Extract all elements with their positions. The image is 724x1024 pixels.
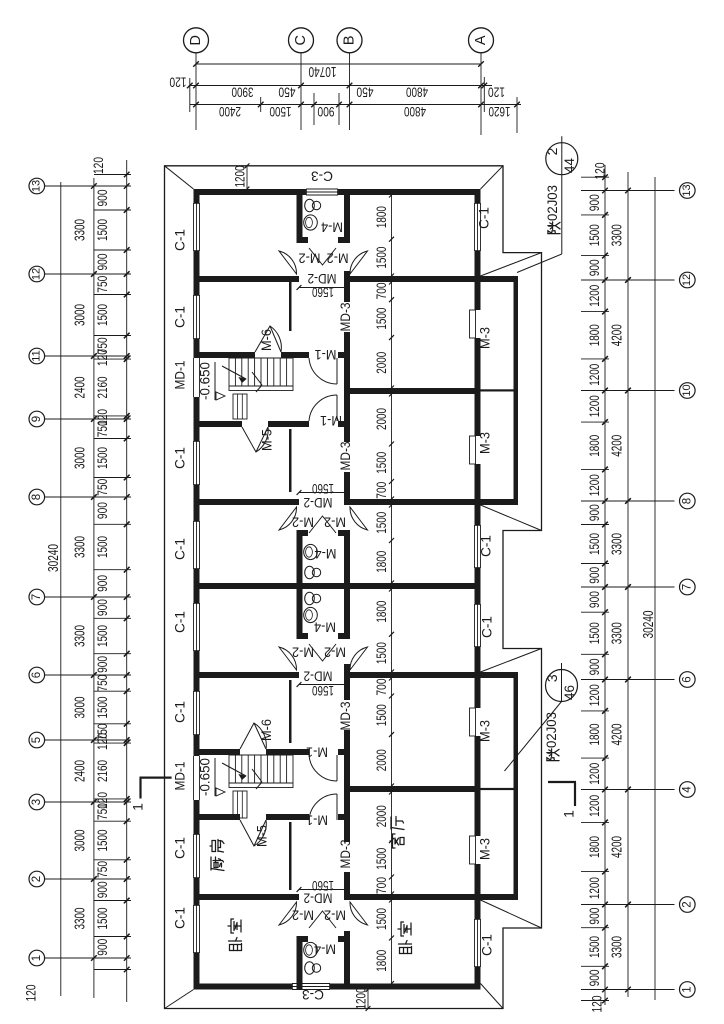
svg-text:M-6: M-6 — [259, 719, 274, 741]
svg-text:1560: 1560 — [312, 683, 334, 698]
balcony 2 divider wall at axis 4 — [481, 788, 514, 790]
svg-text:M-2: M-2 — [292, 907, 314, 922]
svg-text:3000: 3000 — [72, 697, 88, 719]
svg-text:12: 12 — [681, 274, 693, 286]
axis circle 10 right — [680, 383, 696, 399]
staircase 1 (axes 11-9) — [228, 358, 230, 386]
bottom gable wall (axis 1) with window C-3 gap — [194, 984, 293, 990]
svg-text:1800: 1800 — [373, 950, 389, 972]
axis C bath side walls — [297, 189, 303, 243]
svg-text:MD-2: MD-2 — [308, 271, 337, 286]
svg-text:450: 450 — [356, 84, 373, 100]
svg-text:900: 900 — [95, 190, 110, 207]
window C-3 bottom gable — [292, 983, 330, 985]
svg-text:M-4: M-4 — [314, 941, 336, 956]
svg-text:C-1: C-1 — [480, 934, 495, 956]
axis circle 1 left — [29, 950, 45, 966]
svg-text:13: 13 — [681, 184, 693, 196]
svg-text:M-5: M-5 — [255, 825, 270, 847]
axis circle D — [184, 28, 209, 53]
svg-text:1200: 1200 — [587, 877, 602, 899]
svg-text:120: 120 — [169, 74, 186, 90]
axis circle 1 right — [680, 982, 696, 998]
svg-text:M-2: M-2 — [327, 250, 349, 265]
svg-text:5: 5 — [31, 737, 43, 743]
svg-text:-0.650: -0.650 — [198, 758, 213, 796]
svg-text:MD-2: MD-2 — [304, 668, 333, 683]
detail callout circle 3/46 — [546, 670, 578, 702]
svg-text:900: 900 — [95, 599, 110, 616]
bathroom 1 fixtures (toilet and basin) — [305, 199, 315, 211]
axis circle 12 left — [29, 266, 45, 282]
window C-1 left bay 13-12 — [193, 203, 195, 251]
svg-text:1500: 1500 — [587, 936, 602, 958]
svg-text:750: 750 — [95, 803, 110, 820]
svg-text:M-3: M-3 — [478, 838, 493, 860]
axis 12 wall with MD-2 opening and balcony side wall — [200, 276, 300, 282]
axis circle 9 left — [29, 411, 45, 427]
svg-text:900: 900 — [587, 259, 602, 276]
svg-text:1: 1 — [31, 955, 43, 961]
top strip extension lines — [189, 78, 191, 112]
svg-text:1500: 1500 — [373, 642, 389, 664]
bathroom 2a upper wall with M-4 opening — [297, 530, 309, 536]
svg-text:3300: 3300 — [72, 219, 88, 241]
internal dimension chain line — [391, 195, 393, 984]
svg-text:900: 900 — [95, 575, 110, 592]
axis circle 6 left — [29, 667, 45, 683]
svg-text:1500: 1500 — [373, 452, 389, 474]
door M-1 lower at stair 2 — [336, 794, 338, 820]
svg-text:2: 2 — [544, 147, 560, 155]
svg-text:C-3: C-3 — [311, 168, 333, 183]
svg-text:1500: 1500 — [373, 848, 389, 870]
axis 3 stair wall with M-5 and M-1 openings — [200, 814, 241, 820]
svg-text:-0.650: -0.650 — [198, 362, 213, 400]
door M-3 leaf bay 10-8 — [470, 436, 476, 464]
svg-text:D: D — [188, 35, 204, 45]
axis 4 wall — [350, 786, 475, 792]
eave corner diagonal bottom-left — [165, 990, 194, 1009]
window C-1 left bay 2-1 — [193, 905, 195, 953]
axis circle 5 left — [29, 732, 45, 748]
svg-text:C: C — [293, 35, 309, 45]
svg-text:2160: 2160 — [95, 760, 110, 782]
staircase 2 (axes 5-3) — [228, 755, 230, 783]
svg-text:4200: 4200 — [609, 836, 625, 858]
axis circle 7 right — [680, 579, 696, 595]
svg-text:1500: 1500 — [95, 908, 110, 930]
svg-text:1500: 1500 — [587, 224, 602, 246]
svg-text:3000: 3000 — [72, 447, 88, 469]
svg-text:1620: 1620 — [488, 104, 510, 120]
window C-1 right bay 7-6 — [474, 604, 476, 647]
svg-text:7: 7 — [681, 584, 693, 590]
svg-text:1500: 1500 — [373, 908, 389, 930]
svg-text:700: 700 — [373, 877, 389, 894]
axis 8 wall with MD-2 opening and balcony side wall — [200, 499, 300, 505]
svg-text:C-1: C-1 — [173, 701, 188, 723]
svg-text:1: 1 — [130, 803, 146, 811]
svg-text:700: 700 — [373, 678, 389, 695]
svg-text:900: 900 — [587, 658, 602, 675]
svg-text:1200: 1200 — [587, 364, 602, 386]
svg-text:C-1: C-1 — [173, 229, 188, 251]
svg-text:1560: 1560 — [312, 481, 334, 496]
svg-text:13: 13 — [31, 180, 43, 192]
svg-text:MD-2: MD-2 — [304, 495, 333, 510]
axis circle 2 right — [680, 897, 696, 913]
svg-text:1500: 1500 — [587, 533, 602, 555]
svg-text:2: 2 — [31, 876, 43, 882]
svg-text:3300: 3300 — [609, 224, 625, 246]
window C-1 right bay 13-12 — [474, 203, 476, 251]
svg-text:1500: 1500 — [95, 830, 110, 852]
room label bedroom (wo shi) left — [229, 938, 242, 951]
door M-5 at axis 3 wall — [240, 820, 266, 846]
bathroom 1 lower wall with M-4 opening — [297, 237, 309, 243]
room label living room (ke ting) — [390, 834, 404, 848]
svg-text:120: 120 — [488, 84, 505, 100]
axis 10 wall — [350, 388, 475, 394]
svg-text:3300: 3300 — [609, 622, 625, 644]
svg-text:4800: 4800 — [406, 84, 428, 100]
svg-text:9: 9 — [31, 416, 43, 422]
axis circle 8 left — [29, 489, 45, 505]
axis 6 wall with MD-2 opening and balcony side wall — [200, 672, 300, 678]
svg-text:2160: 2160 — [95, 377, 110, 399]
svg-text:3000: 3000 — [72, 304, 88, 326]
svg-text:900: 900 — [95, 656, 110, 673]
svg-text:1800: 1800 — [587, 324, 602, 346]
svg-text:C-1: C-1 — [173, 611, 188, 633]
svg-text:900: 900 — [587, 908, 602, 925]
svg-text:M-5: M-5 — [260, 429, 275, 451]
svg-text:M-2: M-2 — [299, 250, 321, 265]
svg-text:900: 900 — [95, 502, 110, 519]
bathroom 3 fixtures — [305, 962, 315, 974]
door M-1 upper at stair 1 — [336, 358, 338, 384]
opening dim 1560 at axis 8 — [299, 492, 347, 494]
svg-text:MD-1: MD-1 — [173, 361, 188, 390]
svg-text:900: 900 — [587, 591, 602, 608]
svg-text:M-1: M-1 — [320, 413, 342, 428]
svg-text:4800: 4800 — [404, 104, 426, 120]
svg-text:7: 7 — [31, 594, 43, 600]
svg-text:8: 8 — [681, 498, 693, 504]
svg-text:C-1: C-1 — [173, 907, 188, 929]
svg-text:3000: 3000 — [72, 830, 88, 852]
bathroom 2b fixtures — [305, 592, 315, 604]
svg-text:M-1: M-1 — [315, 347, 337, 362]
svg-text:900: 900 — [317, 104, 334, 120]
svg-text:C-1: C-1 — [173, 306, 188, 328]
svg-text:1500: 1500 — [95, 304, 110, 326]
eave overhang dim 1200 top — [246, 166, 248, 189]
window C-1 left bay 12-11 — [193, 295, 195, 339]
svg-text:2000: 2000 — [373, 749, 389, 771]
eave corner diagonal top-right — [481, 166, 504, 189]
svg-text:1500: 1500 — [95, 219, 110, 241]
balcony 1 eave corner diagonals — [481, 253, 542, 276]
opening dim 1560 at axis 12 — [299, 287, 347, 289]
top dim line detailed — [190, 104, 521, 106]
svg-text:3300: 3300 — [72, 908, 88, 930]
svg-text:4200: 4200 — [609, 435, 625, 457]
svg-text:M-2: M-2 — [292, 644, 314, 659]
room label bedroom (wo shi) right — [399, 941, 412, 954]
svg-text:M-2: M-2 — [324, 514, 346, 529]
window C-1 right bay 8-7 — [474, 525, 476, 568]
svg-text:MD-1: MD-1 — [173, 762, 188, 791]
svg-text:02J03: 02J03 — [545, 185, 560, 221]
bathroom 2a fixtures — [305, 566, 315, 578]
svg-text:MD-3: MD-3 — [338, 303, 353, 332]
svg-text:1800: 1800 — [373, 206, 389, 228]
corridor partitions — [289, 282, 292, 331]
svg-text:1200: 1200 — [587, 795, 602, 817]
axis circle 8 right — [680, 493, 696, 509]
svg-text:6: 6 — [31, 672, 43, 678]
axis circle 13 left — [29, 178, 45, 194]
svg-text:C-1: C-1 — [477, 207, 492, 229]
svg-text:1: 1 — [561, 810, 577, 818]
svg-text:30240: 30240 — [641, 611, 657, 639]
svg-text:M-3: M-3 — [478, 432, 493, 454]
svg-text:C-1: C-1 — [173, 447, 188, 469]
door M-3 leaf bay 12-10 — [470, 310, 476, 338]
svg-text:750: 750 — [95, 861, 110, 878]
top gable wall (axis 13) with window C-3 gap — [194, 189, 307, 195]
axis circle 13 right — [680, 183, 696, 199]
svg-text:1200: 1200 — [587, 285, 602, 307]
svg-text:1: 1 — [681, 986, 693, 992]
svg-text:3: 3 — [544, 674, 560, 682]
svg-text:3300: 3300 — [609, 533, 625, 555]
axis 9 stair wall with M-5 and M-1 openings — [200, 421, 243, 427]
axis circle B — [337, 28, 362, 53]
svg-text:120: 120 — [91, 157, 106, 174]
axis circle 12 right — [680, 272, 696, 288]
section mark 1 right — [548, 781, 576, 783]
section mark 1 left — [140, 776, 172, 778]
svg-text:1500: 1500 — [95, 697, 110, 719]
room label kitchen (chu fang) — [211, 857, 224, 871]
eave overhang dim 1200 bottom — [367, 990, 369, 1009]
window C-3 top gable — [306, 188, 338, 190]
svg-text:3: 3 — [31, 799, 43, 805]
svg-text:750: 750 — [95, 479, 110, 496]
svg-text:B: B — [341, 35, 357, 45]
svg-text:3300: 3300 — [72, 625, 88, 647]
svg-text:1200: 1200 — [587, 474, 602, 496]
axis circle 7 left — [29, 589, 45, 605]
door M-3 leaf bay 6-4 — [470, 708, 476, 736]
svg-text:1500: 1500 — [95, 625, 110, 647]
svg-text:M-4: M-4 — [321, 219, 343, 234]
axis 5 stair wall with M-6 and M-1 openings — [200, 749, 241, 755]
svg-text:120: 120 — [95, 733, 110, 750]
outer wall right (axis A) with gaps — [475, 189, 481, 203]
svg-text:M-4: M-4 — [314, 546, 336, 561]
svg-text:700: 700 — [373, 282, 389, 299]
svg-text:M-3: M-3 — [478, 327, 493, 349]
svg-text:2000: 2000 — [373, 805, 389, 827]
svg-text:1500: 1500 — [373, 512, 389, 534]
svg-text:900: 900 — [587, 969, 602, 986]
svg-text:900: 900 — [95, 254, 110, 271]
axis B spine wall with MD-3 and M-2 openings — [344, 189, 350, 243]
svg-text:1500: 1500 — [373, 704, 389, 726]
svg-text:MD-3: MD-3 — [338, 840, 353, 869]
door M-1 lower at stair 1 — [336, 395, 338, 421]
svg-text:3900: 3900 — [231, 84, 253, 100]
window C-1 left bay 8-7 — [193, 521, 195, 569]
svg-text:12: 12 — [31, 268, 43, 280]
svg-text:MD-3: MD-3 — [338, 442, 353, 471]
balcony 2 outer wall — [514, 672, 519, 900]
svg-text:6: 6 — [681, 676, 693, 682]
svg-text:C-1: C-1 — [480, 616, 495, 638]
right strip axis extension lines and stubs — [581, 190, 675, 192]
entry door MD-1 threshold stair 2 — [193, 756, 195, 800]
svg-text:1500: 1500 — [95, 447, 110, 469]
svg-text:11: 11 — [31, 350, 43, 361]
svg-text:M-1: M-1 — [306, 744, 328, 759]
svg-text:10: 10 — [681, 384, 693, 396]
svg-text:3300: 3300 — [609, 936, 625, 958]
balcony 1 outer wall — [514, 276, 519, 505]
svg-text:M-2: M-2 — [324, 644, 346, 659]
door M-6 at axis 11 wall — [255, 326, 281, 352]
detail callout circle 2/44 — [546, 143, 578, 175]
top dim line intermediate — [190, 85, 492, 87]
svg-text:4: 4 — [681, 786, 693, 793]
svg-text:MD-3: MD-3 — [338, 702, 353, 731]
door M-1 upper at stair 2 — [336, 755, 338, 781]
svg-text:1200: 1200 — [354, 988, 369, 1010]
svg-text:44: 44 — [562, 158, 577, 174]
axis 7 party wall — [200, 583, 475, 589]
svg-text:2000: 2000 — [373, 408, 389, 430]
window C-1 left bay 9-8 — [193, 441, 195, 485]
eave corner diagonal top-left — [165, 166, 194, 189]
svg-text:750: 750 — [95, 675, 110, 692]
svg-text:A: A — [473, 35, 489, 45]
svg-text:02J03: 02J03 — [544, 712, 559, 748]
svg-text:M-2: M-2 — [324, 907, 346, 922]
entry doors M-2/M-4 swing cluster at axis 8 — [279, 507, 297, 530]
axis 2 wall with MD-2 opening and balcony side wall — [200, 894, 300, 900]
entry doors M-2/M-4 swing cluster at axis 6 — [279, 647, 297, 670]
svg-text:1500: 1500 — [269, 104, 291, 120]
door M-5 at axis 9 wall — [242, 427, 268, 452]
svg-text:750: 750 — [95, 276, 110, 293]
svg-text:1500: 1500 — [373, 246, 389, 268]
svg-text:4200: 4200 — [609, 324, 625, 346]
eave corner diagonal bottom-right — [481, 984, 504, 1009]
bathroom 3 upper wall with M-4 opening — [297, 936, 309, 942]
svg-text:C-1: C-1 — [173, 538, 188, 560]
svg-text:2400: 2400 — [72, 377, 88, 399]
roof eave outline — [165, 166, 542, 1009]
svg-text:1500: 1500 — [587, 622, 602, 644]
svg-text:10740: 10740 — [309, 63, 337, 79]
svg-text:30240: 30240 — [46, 544, 62, 572]
svg-text:1200: 1200 — [587, 395, 602, 417]
window C-1 right bay 2-1 — [474, 919, 476, 967]
top dim line total 10740 — [196, 63, 481, 65]
window C-1 left bay 7-6 — [193, 603, 195, 651]
svg-text:C-1: C-1 — [173, 837, 188, 859]
axis 11 stair wall with M-6 and M-1 openings — [200, 352, 256, 358]
svg-text:2: 2 — [681, 901, 693, 907]
svg-text:2400: 2400 — [72, 760, 88, 782]
outer wall left (axis D) with window/door gaps — [194, 189, 200, 203]
window C-1 left bay 3-2 — [193, 834, 195, 878]
svg-text:M-6: M-6 — [259, 329, 274, 351]
svg-text:46: 46 — [562, 685, 577, 700]
axis circle 11 left — [29, 348, 45, 364]
balcony 1 divider wall at axis 10 — [481, 389, 514, 391]
right strip vertical lines — [604, 165, 606, 1005]
svg-text:1200: 1200 — [233, 166, 248, 188]
balcony 2 eave corner diagonals — [481, 649, 542, 673]
door M-6 at axis 5 wall — [240, 723, 266, 749]
svg-text:450: 450 — [278, 84, 295, 100]
axis circle 4 right — [680, 782, 696, 798]
svg-text:MD-2: MD-2 — [304, 890, 333, 905]
svg-text:700: 700 — [373, 482, 389, 499]
bathroom 2b lower wall with M-4 opening — [297, 633, 309, 639]
svg-text:1500: 1500 — [373, 307, 389, 329]
svg-text:C-1: C-1 — [479, 535, 494, 557]
svg-text:1800: 1800 — [587, 724, 602, 746]
svg-text:900: 900 — [587, 504, 602, 521]
svg-text:1500: 1500 — [95, 536, 110, 558]
svg-text:1800: 1800 — [373, 600, 389, 622]
svg-text:750: 750 — [95, 420, 110, 437]
axis circle C — [289, 28, 314, 53]
opening dim 1560 at axis 6 — [299, 684, 347, 686]
svg-text:3300: 3300 — [72, 536, 88, 558]
svg-text:1800: 1800 — [587, 836, 602, 858]
axis circle 3 left — [29, 794, 45, 810]
entry door MD-1 threshold stair 1 — [193, 358, 195, 397]
svg-text:2400: 2400 — [219, 104, 241, 120]
svg-text:M-1: M-1 — [306, 812, 328, 827]
svg-text:1800: 1800 — [373, 551, 389, 573]
svg-text:M-3: M-3 — [478, 720, 493, 742]
svg-text:8: 8 — [31, 494, 43, 500]
svg-text:900: 900 — [95, 939, 110, 956]
svg-text:900: 900 — [587, 194, 602, 211]
svg-text:120: 120 — [24, 985, 39, 1002]
svg-text:4200: 4200 — [609, 724, 625, 746]
svg-text:900: 900 — [587, 567, 602, 584]
svg-text:1200: 1200 — [587, 684, 602, 706]
svg-text:1200: 1200 — [587, 763, 602, 785]
svg-text:M-4: M-4 — [314, 619, 336, 634]
svg-text:C-3: C-3 — [302, 987, 324, 1002]
axis circle 6 right — [680, 672, 696, 688]
svg-text:900: 900 — [95, 881, 110, 898]
left strip vertical lines — [60, 182, 62, 996]
door M-3 leaf bay 4-2 — [470, 836, 476, 864]
axis circle A — [469, 28, 494, 53]
svg-text:2000: 2000 — [373, 352, 389, 374]
svg-text:1800: 1800 — [587, 435, 602, 457]
